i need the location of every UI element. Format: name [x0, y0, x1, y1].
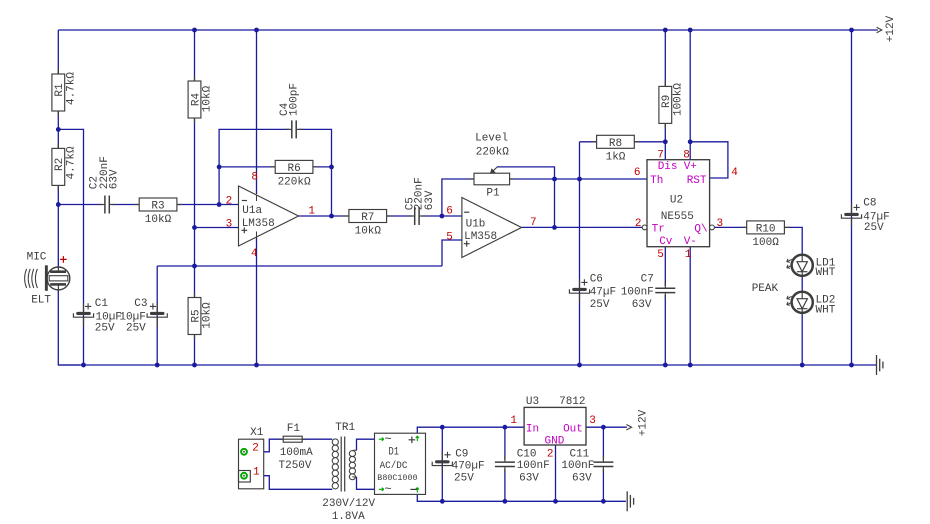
junction R8 Dis [663, 139, 668, 144]
wire R4 branch [194, 30, 196, 266]
junction pin4 gnd [254, 363, 259, 368]
capacitor C11 [593, 456, 614, 473]
LED LD2 [787, 292, 813, 313]
junction pin3 node [192, 225, 197, 230]
junction V+ +12V [688, 28, 693, 33]
label D1 plus pin [409, 437, 416, 444]
wire C9 branch [441, 427, 443, 501]
junction Th node [577, 177, 582, 182]
junction V- gnd [688, 363, 693, 368]
wire pin6 node up to P1 left [442, 179, 474, 216]
svg-text:R3: R3 [151, 201, 164, 213]
capacitor C5 [408, 207, 425, 226]
wire P1 node vertical to output [554, 179, 556, 227]
wire mic node to MIC [57, 205, 59, 270]
svg-text:V+: V+ [684, 161, 697, 173]
svg-text:4: 4 [731, 167, 738, 179]
svg-text:5: 5 [446, 231, 453, 243]
wire R8 line [580, 141, 666, 143]
svg-text:B80C1000: B80C1000 [377, 473, 417, 483]
junction pin2 feedback [217, 202, 222, 207]
junction mic node [56, 202, 61, 207]
svg-text:7: 7 [530, 217, 537, 229]
resistor R3 [134, 198, 182, 226]
capacitor C4 [286, 120, 303, 139]
svg-text:5: 5 [657, 249, 664, 261]
svg-text:7: 7 [657, 149, 664, 161]
resistor R9 [659, 81, 684, 128]
wire X1 pin2 to F1 to TR1 primary top [248, 439, 333, 452]
resistor R8 [592, 135, 640, 163]
junction C8 +12V [849, 28, 854, 33]
svg-text:1.8VA: 1.8VA [332, 511, 365, 523]
svg-text:R7: R7 [361, 212, 374, 224]
junction R6 right [329, 165, 334, 170]
wire TR1 secondary top to D1 [357, 439, 375, 450]
svg-text:In: In [526, 424, 539, 436]
svg-text:P1: P1 [486, 187, 500, 199]
svg-text:U1b: U1b [466, 219, 486, 231]
wire U1a pin3 [195, 227, 239, 229]
wire feedback left vertical [219, 129, 290, 204]
svg-text:Cv: Cv [659, 236, 673, 248]
svg-text:C3: C3 [134, 298, 147, 310]
svg-text:47µF: 47µF [590, 286, 616, 298]
svg-text:C6: C6 [590, 274, 603, 286]
svg-text:Level: Level [475, 133, 508, 145]
junction R5 gnd [192, 363, 197, 368]
wire U1a pin8 to +12V [256, 30, 258, 194]
microphone MIC ELT [25, 265, 70, 291]
svg-text:25V: 25V [864, 222, 884, 234]
svg-text:63V: 63V [424, 190, 436, 210]
svg-text:100mA: 100mA [280, 447, 313, 459]
svg-text:10kΩ: 10kΩ [355, 226, 382, 238]
wire X1 pin1 to TR1 primary bottom [248, 476, 333, 490]
svg-text:RST: RST [687, 175, 707, 187]
svg-text:10kΩ: 10kΩ [202, 85, 214, 112]
wire U1b out to Tr [522, 226, 643, 228]
svg-text:LM358: LM358 [242, 218, 275, 230]
svg-text:U2: U2 [670, 194, 683, 206]
ground supply [627, 491, 633, 511]
transformer TR1 [332, 437, 356, 492]
svg-text:25V: 25V [590, 299, 610, 311]
wire C8 branch [851, 30, 853, 365]
wire D1 minus to supply ground rail [417, 494, 626, 501]
junction RST V+ [688, 139, 693, 144]
svg-text:100Ω: 100Ω [752, 237, 779, 249]
wire ref to U1b pin5 [442, 240, 462, 266]
svg-text:6: 6 [634, 167, 641, 179]
resistor R5 [188, 293, 213, 340]
junction R6 left [217, 165, 222, 170]
regulator U3 7812 [524, 407, 586, 445]
op-amp U1b [462, 198, 522, 258]
svg-text:AC/DC: AC/DC [380, 460, 408, 472]
junction P1 node [552, 177, 557, 182]
wire Cv C7 branch [664, 247, 666, 365]
label D1 minus pin [410, 488, 417, 490]
wire U1a pin4 to ground [256, 238, 258, 365]
junction U1a out feedback [329, 214, 334, 219]
junction C6 gnd [577, 363, 582, 368]
svg-text:C1: C1 [95, 298, 109, 310]
svg-text:220kΩ: 220kΩ [476, 147, 509, 159]
mic plus polarity [60, 256, 67, 263]
junction C9 bottom [440, 499, 445, 504]
wire U1a out to R7 C5 U1b pin6 [299, 215, 462, 217]
wire U3 Out to +12V [586, 426, 627, 428]
wire C3 branch [156, 266, 158, 365]
svg-text:10kΩ: 10kΩ [145, 214, 172, 226]
svg-text:MIC: MIC [27, 252, 47, 264]
svg-text:Q\: Q\ [694, 224, 707, 236]
wire D1 plus to U3 In [417, 427, 524, 433]
junction U3 gnd [553, 499, 558, 504]
svg-text:2: 2 [252, 442, 259, 454]
svg-text:10kΩ: 10kΩ [202, 302, 214, 329]
junction C8 gnd [849, 363, 854, 368]
wire C11 branch [602, 427, 604, 501]
svg-text:R8: R8 [609, 138, 622, 150]
wire Th vertical C6 branch [579, 142, 581, 365]
capacitor C6 [569, 279, 589, 302]
junction LED gnd [800, 363, 805, 368]
wire R2 to mic node [57, 183, 59, 205]
wire node to C1 [58, 129, 83, 365]
wire V+ branch [689, 30, 691, 160]
svg-text:D1: D1 [389, 447, 400, 459]
svg-text:C7: C7 [641, 274, 654, 286]
svg-text:PEAK: PEAK [752, 283, 779, 295]
svg-text:TR1: TR1 [335, 422, 355, 434]
svg-text:U1a: U1a [242, 205, 262, 217]
svg-text:3: 3 [717, 218, 724, 230]
svg-text:63V: 63V [108, 169, 120, 189]
svg-text:2: 2 [635, 218, 642, 230]
svg-text:100nF: 100nF [517, 460, 550, 472]
junction C7 gnd [663, 363, 668, 368]
svg-text:7812: 7812 [559, 396, 585, 408]
svg-text:63V: 63V [519, 473, 539, 485]
svg-text:F1: F1 [287, 423, 301, 435]
svg-text:230V/12V: 230V/12V [322, 498, 375, 510]
timer U2 NE555 [642, 160, 714, 247]
capacitor C3 [147, 303, 167, 326]
junction C10 top [503, 425, 508, 430]
wire R9 Dis branch [664, 30, 666, 160]
resistor R6 [270, 160, 318, 188]
ground top circuit [877, 355, 883, 375]
svg-text:~: ~ [385, 482, 392, 496]
wire V- to ground [689, 247, 691, 365]
svg-text:1: 1 [308, 206, 315, 218]
svg-text:Out: Out [563, 424, 583, 436]
svg-text:R6: R6 [287, 163, 300, 175]
wire P1 right to Th node [510, 178, 647, 180]
svg-text:63V: 63V [632, 299, 652, 311]
svg-text:Dis: Dis [658, 161, 678, 173]
capacitor C1 [73, 303, 93, 326]
svg-text:WHT: WHT [816, 304, 836, 316]
capacitor C2 [99, 195, 116, 214]
svg-text:3: 3 [589, 415, 596, 427]
capacitor C10 [494, 456, 515, 473]
junction C10 bottom [503, 499, 508, 504]
op-amp U1a [239, 186, 299, 246]
svg-text:100kΩ: 100kΩ [672, 83, 684, 116]
wire R6 line [219, 166, 331, 168]
junction ref R5 [192, 264, 197, 269]
svg-text:1: 1 [253, 466, 260, 478]
wire R1 branch top [57, 30, 59, 76]
node +12V arrow top [877, 15, 898, 42]
wire RST loop [690, 142, 728, 178]
potentiometer P1 [470, 167, 515, 185]
node +12V top rail [58, 29, 878, 31]
connector X1 [239, 439, 264, 489]
junction C3 gnd [155, 363, 160, 368]
wire TR1 secondary bottom to D1 [357, 477, 375, 489]
svg-text:6: 6 [446, 205, 453, 217]
svg-text:GND: GND [545, 436, 565, 448]
svg-text:+12V: +12V [637, 409, 649, 436]
svg-text:1: 1 [685, 249, 692, 261]
svg-text:3: 3 [226, 219, 233, 231]
svg-text:NE555: NE555 [661, 211, 694, 223]
wire reference rail [157, 265, 442, 267]
svg-text:Tr: Tr [652, 224, 665, 236]
svg-text:+12V: +12V [885, 15, 897, 42]
capacitor C8 [841, 204, 861, 227]
svg-text:C9: C9 [455, 449, 468, 461]
svg-text:1: 1 [510, 415, 517, 427]
resistor R4 [188, 76, 213, 123]
svg-text:2: 2 [226, 195, 233, 207]
svg-text:100nF: 100nF [621, 286, 654, 298]
svg-text:25V: 25V [126, 322, 146, 334]
svg-text:4.7kΩ: 4.7kΩ [65, 72, 77, 105]
junction U1b out [552, 225, 557, 230]
junction pin8 +12V [254, 28, 259, 33]
junction pin6 node [440, 214, 445, 219]
wire signal line C2 R3 to pin2 [58, 204, 238, 206]
svg-text:ELT: ELT [31, 295, 51, 307]
svg-text:V-: V- [684, 236, 697, 248]
svg-text:2: 2 [547, 448, 554, 460]
resistor R1 [52, 69, 77, 116]
LED LD1 [787, 255, 813, 276]
wire MIC to ground rail [58, 288, 80, 365]
wire C10 branch [504, 427, 506, 501]
node ground rail [58, 364, 876, 366]
wire R5 branch [194, 266, 196, 365]
svg-text:C10: C10 [517, 449, 537, 461]
wire U3 GND pin [555, 445, 557, 501]
svg-text:LM358: LM358 [464, 231, 497, 243]
svg-text:U3: U3 [526, 396, 539, 408]
svg-text:4.7kΩ: 4.7kΩ [65, 146, 77, 179]
svg-text:4: 4 [251, 248, 258, 260]
wire R1-R2 node jog [57, 109, 59, 151]
svg-text:1kΩ: 1kΩ [606, 151, 626, 163]
svg-text:C11: C11 [569, 449, 589, 461]
svg-text:C8: C8 [863, 198, 876, 210]
svg-text:8: 8 [251, 172, 258, 184]
wire Q output to R10 LEDs [714, 227, 802, 365]
svg-text:X1: X1 [250, 427, 264, 439]
svg-text:Th: Th [650, 175, 663, 187]
svg-text:100pF: 100pF [288, 83, 300, 116]
svg-text:8: 8 [683, 149, 690, 161]
junction R9 +12V [663, 28, 668, 33]
node +12V arrow supply [626, 409, 649, 436]
svg-text:100nF: 100nF [561, 460, 594, 472]
svg-text:T250V: T250V [279, 460, 312, 472]
junction R4 +12V [192, 28, 197, 33]
svg-text:25V: 25V [454, 473, 474, 485]
svg-text:WHT: WHT [816, 267, 836, 279]
svg-text:220kΩ: 220kΩ [278, 176, 311, 188]
capacitor C7 [655, 282, 676, 299]
wire P1 wiper jog [497, 167, 554, 179]
resistor R2 [52, 143, 77, 190]
svg-text:25V: 25V [95, 322, 115, 334]
svg-text:~: ~ [385, 432, 392, 446]
junction C9 top [440, 425, 445, 430]
junction C1 gnd [81, 363, 86, 368]
resistor R7 [344, 210, 392, 238]
resistor R10 [742, 221, 790, 249]
wire C4 right to feedback right vertical [298, 129, 331, 216]
bridge rectifier D1 [375, 433, 426, 494]
svg-text:63V: 63V [572, 473, 592, 485]
junction C11 bottom [601, 499, 606, 504]
svg-text:470µF: 470µF [452, 461, 485, 473]
svg-text:R10: R10 [756, 223, 776, 235]
capacitor C9 [432, 451, 452, 474]
junction C11 top [601, 425, 606, 430]
junction R1 R2 node [56, 127, 61, 132]
fuse F1 [280, 436, 305, 442]
